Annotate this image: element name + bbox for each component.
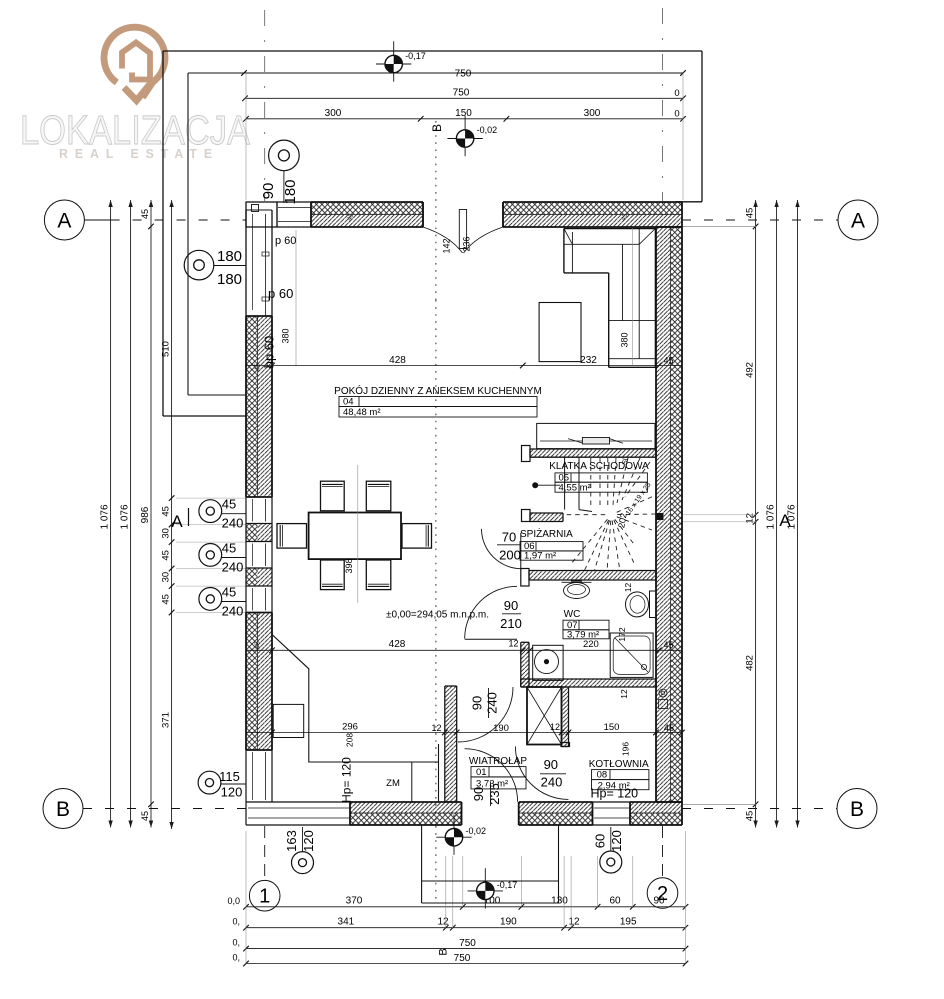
svg-text:45: 45: [160, 506, 171, 517]
svg-text:180: 180: [217, 248, 242, 265]
svg-text:B: B: [430, 124, 444, 132]
svg-text:235: 235: [487, 783, 502, 805]
svg-text:45: 45: [744, 208, 755, 219]
svg-text:KLATKA SCHODOWA: KLATKA SCHODOWA: [549, 461, 649, 472]
svg-text:4,55 m²: 4,55 m²: [559, 483, 591, 494]
svg-text:232: 232: [580, 355, 597, 366]
svg-text:WC: WC: [564, 609, 581, 620]
svg-text:240: 240: [222, 559, 244, 574]
svg-text:210: 210: [500, 616, 522, 631]
svg-text:45: 45: [744, 811, 755, 822]
svg-text:B: B: [56, 798, 70, 821]
svg-text:30: 30: [160, 572, 171, 583]
svg-text:750: 750: [455, 69, 472, 80]
svg-text:428: 428: [389, 355, 406, 366]
svg-text:A: A: [851, 209, 865, 232]
svg-text:0,: 0,: [232, 952, 240, 962]
svg-text:120: 120: [221, 785, 243, 800]
svg-text:Hp= 120: Hp= 120: [591, 787, 639, 801]
svg-text:380: 380: [281, 328, 291, 343]
svg-text:172: 172: [617, 627, 627, 641]
svg-text:492: 492: [744, 362, 755, 378]
svg-text:0: 0: [674, 88, 679, 99]
svg-text:380: 380: [620, 332, 630, 347]
svg-text:45: 45: [255, 363, 262, 371]
svg-text:750: 750: [454, 953, 471, 964]
svg-text:510: 510: [160, 341, 171, 357]
svg-text:POKÓJ DZIENNY Z ANEKSEM KUCHEN: POKÓJ DZIENNY Z ANEKSEM KUCHENNYM: [334, 384, 542, 397]
svg-text:371: 371: [160, 712, 171, 728]
svg-text:300: 300: [584, 108, 601, 119]
svg-text:1 076: 1 076: [120, 504, 131, 529]
svg-text:45: 45: [160, 594, 171, 605]
svg-text:195: 195: [620, 916, 637, 927]
svg-text:-0,02: -0,02: [477, 125, 498, 135]
svg-text:±0,00=294,05 m.n.p.m.: ±0,00=294,05 m.n.p.m.: [386, 610, 489, 621]
svg-text:-0,02: -0,02: [466, 826, 487, 836]
svg-text:296: 296: [342, 722, 358, 733]
svg-text:A: A: [171, 512, 183, 531]
svg-text:1: 1: [259, 886, 270, 908]
svg-text:SPIŻARNIA: SPIŻARNIA: [520, 527, 573, 540]
svg-text:45: 45: [222, 584, 236, 599]
svg-text:236: 236: [462, 236, 472, 251]
svg-text:30: 30: [160, 528, 171, 539]
svg-text:398: 398: [344, 558, 354, 573]
svg-text:240: 240: [222, 516, 244, 531]
svg-text:hp 60: hp 60: [262, 336, 277, 369]
svg-text:180: 180: [217, 271, 242, 288]
svg-text:Hp= 120: Hp= 120: [340, 757, 354, 803]
svg-text:150: 150: [604, 722, 620, 733]
svg-text:45: 45: [140, 209, 150, 219]
svg-text:WIATROŁAP: WIATROŁAP: [469, 756, 527, 767]
svg-text:90: 90: [504, 598, 518, 613]
svg-text:300: 300: [325, 108, 342, 119]
svg-text:200: 200: [499, 548, 521, 563]
svg-text:45: 45: [140, 811, 150, 821]
svg-text:A: A: [779, 511, 791, 530]
svg-text:0,0: 0,0: [227, 896, 240, 906]
svg-text:60: 60: [609, 896, 621, 907]
svg-text:12: 12: [431, 723, 441, 733]
svg-text:90: 90: [544, 757, 558, 772]
svg-text:0,: 0,: [232, 937, 240, 947]
svg-text:142: 142: [442, 238, 452, 253]
svg-text:45: 45: [255, 641, 262, 649]
svg-text:3,79 m²: 3,79 m²: [567, 629, 599, 640]
svg-text:190: 190: [493, 723, 509, 734]
svg-text:163: 163: [284, 830, 299, 852]
svg-text:370: 370: [346, 896, 363, 907]
svg-text:-0,17: -0,17: [497, 880, 518, 890]
svg-text:45: 45: [222, 540, 236, 555]
svg-text:ZM: ZM: [386, 778, 400, 789]
svg-text:12: 12: [623, 583, 633, 593]
svg-text:90: 90: [470, 696, 485, 710]
svg-text:45: 45: [663, 356, 673, 366]
svg-text:KOTŁOWNIA: KOTŁOWNIA: [589, 759, 649, 770]
svg-text:90: 90: [653, 896, 665, 907]
svg-text:115: 115: [219, 769, 240, 784]
svg-text:240: 240: [485, 692, 500, 714]
svg-text:240: 240: [222, 603, 244, 618]
svg-text:45: 45: [663, 640, 673, 650]
svg-text:180: 180: [282, 179, 299, 204]
svg-text:750: 750: [459, 938, 476, 949]
svg-text:750: 750: [453, 88, 470, 99]
svg-text:1,97 m²: 1,97 m²: [524, 550, 556, 561]
svg-text:REAL ESTATE: REAL ESTATE: [59, 147, 219, 161]
svg-text:A: A: [57, 209, 71, 232]
svg-text:120: 120: [301, 830, 316, 852]
svg-text:p 60: p 60: [275, 235, 296, 247]
svg-text:120: 120: [609, 830, 624, 852]
svg-text:341: 341: [338, 916, 355, 927]
svg-text:01: 01: [476, 767, 487, 778]
svg-text:196: 196: [621, 742, 631, 756]
svg-text:45: 45: [160, 550, 171, 561]
svg-text:1 076: 1 076: [765, 504, 776, 529]
svg-text:B: B: [850, 798, 864, 821]
svg-text:08: 08: [597, 770, 608, 781]
svg-text:45: 45: [664, 723, 674, 733]
svg-text:90: 90: [471, 787, 486, 801]
svg-text:12: 12: [568, 916, 580, 927]
svg-text:B: B: [438, 948, 450, 955]
svg-text:12: 12: [508, 639, 518, 649]
svg-text:45: 45: [222, 497, 236, 512]
svg-text:150: 150: [455, 108, 472, 119]
svg-text:p 60: p 60: [268, 286, 293, 301]
svg-text:1 076: 1 076: [100, 504, 111, 529]
svg-text:12: 12: [619, 689, 629, 699]
svg-text:130: 130: [551, 896, 568, 907]
svg-text:90: 90: [260, 183, 277, 200]
svg-text:12: 12: [437, 916, 449, 927]
svg-text:12: 12: [550, 722, 560, 732]
svg-text:240: 240: [541, 775, 563, 790]
svg-text:190: 190: [500, 916, 517, 927]
svg-text:48,48 m²: 48,48 m²: [343, 407, 381, 418]
svg-text:60: 60: [593, 834, 608, 848]
svg-text:428: 428: [389, 639, 406, 650]
svg-text:0,: 0,: [232, 917, 240, 927]
svg-text:-0,17: -0,17: [405, 51, 426, 61]
svg-text:70: 70: [502, 530, 516, 545]
svg-text:0: 0: [674, 109, 679, 120]
svg-text:220: 220: [583, 639, 599, 650]
svg-text:208: 208: [345, 733, 355, 747]
svg-text:986: 986: [140, 506, 151, 523]
svg-text:482: 482: [744, 655, 755, 671]
